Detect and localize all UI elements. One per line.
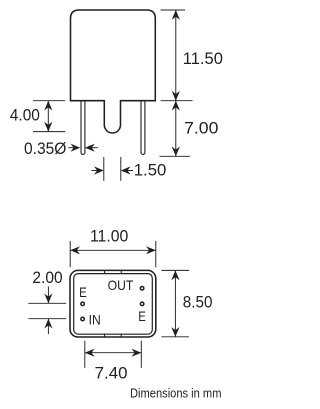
svg-text:IN: IN xyxy=(89,312,101,328)
svg-text:OUT: OUT xyxy=(108,278,134,294)
svg-text:4.00: 4.00 xyxy=(10,106,40,124)
svg-text:E: E xyxy=(79,285,87,300)
svg-text:11.00: 11.00 xyxy=(90,227,128,245)
svg-text:E: E xyxy=(138,309,146,324)
svg-text:1.50: 1.50 xyxy=(134,162,167,180)
svg-text:11.50: 11.50 xyxy=(183,50,223,68)
svg-text:2.00: 2.00 xyxy=(32,269,62,287)
svg-text:8.50: 8.50 xyxy=(183,293,213,311)
svg-text:Dimensions in mm: Dimensions in mm xyxy=(130,386,222,401)
svg-text:0.35Ø: 0.35Ø xyxy=(24,140,67,158)
svg-text:7.00: 7.00 xyxy=(184,120,218,138)
svg-text:7.40: 7.40 xyxy=(95,365,128,383)
